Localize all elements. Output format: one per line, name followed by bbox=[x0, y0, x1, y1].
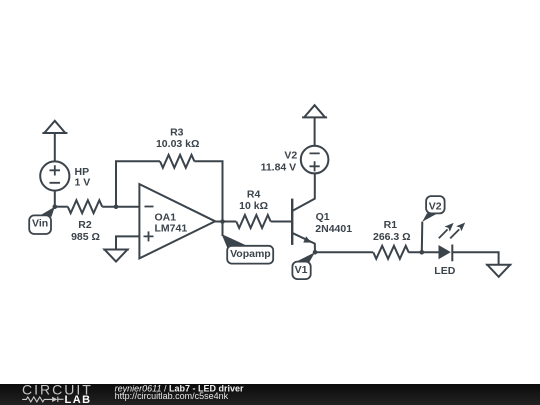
power flag left bbox=[42, 121, 67, 133]
LED D1 triangle bbox=[439, 245, 451, 259]
svg-text:V2: V2 bbox=[429, 200, 442, 212]
node B (inverting input) bbox=[114, 204, 119, 209]
wire node up to V2 label bbox=[421, 222, 424, 253]
wire bbox=[102, 206, 139, 208]
wire R1 to LED bbox=[408, 251, 438, 253]
label pointer Vin bbox=[40, 207, 55, 217]
label box V1 bbox=[292, 262, 310, 280]
transistor Q1 emitter bbox=[293, 233, 315, 252]
svg-text:Vopamp: Vopamp bbox=[230, 248, 271, 260]
svg-text:R1: R1 bbox=[384, 219, 398, 231]
resistor R3 bbox=[160, 155, 194, 168]
svg-text:LED: LED bbox=[434, 265, 455, 277]
node E (V2 led) bbox=[420, 250, 425, 255]
svg-text:LM741: LM741 bbox=[155, 222, 188, 234]
svg-text:Vin: Vin bbox=[32, 217, 48, 229]
label pointer V1 bbox=[295, 252, 315, 263]
wire LED to ground bbox=[452, 252, 498, 264]
wire output bbox=[215, 221, 236, 223]
wire feedback right bbox=[194, 161, 222, 221]
op-amp minus bbox=[145, 206, 154, 208]
node D (V1 emitter) bbox=[313, 250, 318, 255]
svg-text:10.03 kΩ: 10.03 kΩ bbox=[156, 138, 199, 150]
wire bbox=[55, 206, 68, 208]
op-amp plus bbox=[144, 231, 154, 241]
transistor Q1 bar bbox=[291, 199, 293, 245]
svg-text:Q1: Q1 bbox=[316, 211, 330, 223]
transistor Q1 collector bbox=[293, 173, 315, 210]
ground op-amp bbox=[103, 250, 129, 262]
LED cathode bar bbox=[451, 245, 453, 262]
label pointer stem Vopamp bbox=[222, 222, 224, 237]
power flag right bbox=[302, 105, 327, 117]
wire bbox=[54, 191, 56, 207]
label pointer V2 bbox=[422, 213, 437, 222]
LED light arrow 1 bbox=[445, 223, 454, 232]
svg-text:R3: R3 bbox=[170, 126, 184, 138]
svg-text:V1: V1 bbox=[295, 264, 308, 276]
svg-text:1 V: 1 V bbox=[75, 177, 91, 189]
svg-text:2N4401: 2N4401 bbox=[315, 223, 352, 235]
wire plus input to ground bbox=[116, 236, 139, 249]
svg-text:http://circuitlab.com/c5se4nk: http://circuitlab.com/c5se4nk bbox=[115, 391, 229, 401]
resistor R4 bbox=[236, 215, 270, 228]
LED light arrow 2 bbox=[456, 223, 465, 232]
label box V2 bbox=[426, 196, 445, 213]
node C (Vopamp) bbox=[220, 219, 225, 224]
wire bbox=[54, 133, 56, 162]
logo wire bbox=[22, 397, 63, 402]
voltage source HP bbox=[40, 161, 69, 190]
label box Vin bbox=[29, 215, 51, 234]
label pointer Vopamp bbox=[222, 234, 248, 248]
svg-text:V2: V2 bbox=[284, 150, 297, 162]
svg-text:10 kΩ: 10 kΩ bbox=[239, 200, 268, 212]
label box Vopamp bbox=[227, 246, 273, 264]
footer bar bbox=[0, 384, 540, 405]
svg-text:266.3 Ω: 266.3 Ω bbox=[373, 231, 411, 243]
node A (Vin) bbox=[53, 204, 58, 209]
voltage source V2 bbox=[301, 146, 329, 174]
wire feedback left bbox=[116, 161, 160, 206]
wire to base bbox=[271, 221, 291, 223]
LED light arrow 1 shaft bbox=[439, 229, 448, 238]
svg-text:LAB: LAB bbox=[65, 394, 92, 405]
svg-text:11.84 V: 11.84 V bbox=[261, 162, 297, 174]
svg-text:R2: R2 bbox=[78, 219, 92, 231]
op-amp U1 triangle bbox=[139, 184, 215, 258]
svg-text:985 Ω: 985 Ω bbox=[71, 231, 100, 243]
wire V2 top bbox=[314, 117, 316, 145]
logo diode bbox=[52, 397, 57, 402]
LED light arrow 2 shaft bbox=[450, 229, 459, 238]
resistor R1 bbox=[373, 246, 408, 259]
ground right bbox=[486, 265, 511, 277]
resistor R2 bbox=[68, 200, 102, 213]
transistor Q1 emitter arrow bbox=[303, 236, 311, 242]
wire emitter to R1 bbox=[315, 251, 373, 253]
svg-text:R4: R4 bbox=[247, 189, 261, 201]
